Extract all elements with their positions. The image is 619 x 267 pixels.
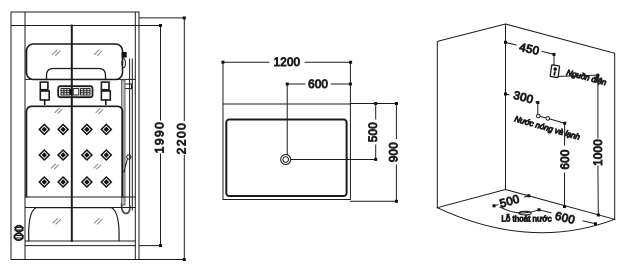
- svg-text:900: 900: [388, 142, 400, 162]
- power outlet symbol: [550, 65, 560, 78]
- cabin bottom base line: [11, 259, 184, 261]
- shower rail: [130, 59, 133, 210]
- dim 600 vertical extension: [286, 84, 288, 155]
- cabin top frame: [11, 12, 139, 26]
- dim 500 line: [374, 102, 377, 161]
- plan inner tub rect: [226, 120, 346, 197]
- svg-text:600: 600: [560, 149, 572, 169]
- plan drain to 500 line: [291, 159, 376, 161]
- glass panel bottom frame line: [25, 78, 135, 80]
- back glass panel: [27, 44, 123, 80]
- headrest: [47, 69, 106, 80]
- floor back-left edge: [437, 190, 505, 208]
- glass hatch marks top panel: [53, 50, 103, 56]
- jet panel bottom line: [25, 196, 135, 198]
- dim 1990 line: [159, 24, 162, 247]
- floor back-right edge: [506, 190, 615, 220]
- jet panel: [27, 106, 123, 197]
- rail bracket: [124, 84, 131, 89]
- dim 2200 line: [183, 16, 186, 261]
- svg-text:Lỗ thoát nước: Lỗ thoát nước: [501, 215, 551, 224]
- shower hose tube: [122, 80, 125, 205]
- room corner line: [505, 24, 507, 190]
- svg-text:1990: 1990: [152, 121, 166, 154]
- svg-text:2200: 2200: [174, 122, 188, 155]
- water drop line: [537, 103, 539, 115]
- massage jets grid: [39, 124, 111, 187]
- outlet to 1000 connector: [559, 75, 598, 76]
- glass hatch marks jet panel: [52, 109, 103, 170]
- cabin right frame: [135, 12, 139, 260]
- right button large: [101, 91, 110, 104]
- dim 2200 extension top: [139, 17, 185, 19]
- left button small: [40, 82, 48, 90]
- dim 600 floor line: [538, 208, 598, 225]
- shower hose loop: [122, 59, 126, 68]
- cabin outer frame left panel: [11, 12, 25, 260]
- svg-text:1000: 1000: [593, 139, 605, 166]
- floor front curve: [437, 208, 614, 233]
- room left wall: [437, 24, 505, 208]
- tub front: [29, 208, 119, 241]
- svg-text:1200: 1200: [274, 57, 301, 69]
- base skirt line: [25, 245, 135, 247]
- dim 1000 line: [596, 74, 599, 217]
- hot cold water points: [537, 114, 567, 125]
- dim 450 line: [504, 41, 556, 56]
- hand shower holder: [122, 52, 127, 58]
- center door seam: [71, 26, 73, 242]
- svg-text:500: 500: [368, 122, 380, 142]
- control panel: [58, 86, 92, 97]
- dim 900 line: [395, 102, 398, 203]
- plan outer rect: [223, 62, 350, 199]
- dim 500 floor line: [493, 194, 531, 207]
- tub apron line: [25, 240, 135, 242]
- tub rim line: [25, 207, 135, 209]
- dim 600 line: [286, 83, 352, 86]
- dim 300 line: [504, 93, 539, 105]
- left button large: [40, 91, 49, 104]
- glass hatch marks tub: [53, 219, 102, 225]
- hand shower hook: [122, 205, 130, 214]
- dim 1990 extension top: [139, 25, 162, 27]
- svg-text:600: 600: [308, 79, 328, 91]
- right button small: [101, 82, 109, 90]
- rail slider knob: [124, 155, 131, 172]
- faucet knobs: [14, 226, 24, 241]
- dim 1200 line: [221, 61, 352, 64]
- dim 600 wall line: [563, 123, 566, 208]
- plan bottom extension line: [350, 200, 397, 202]
- floor drain ellipse: [519, 211, 531, 215]
- room right wall: [506, 24, 615, 219]
- drain leader curve: [500, 207, 539, 213]
- outlet drop line: [553, 54, 555, 65]
- plan drain: [281, 155, 291, 165]
- plan top extension line: [350, 103, 397, 105]
- dim 1990 extension bottom: [140, 245, 162, 247]
